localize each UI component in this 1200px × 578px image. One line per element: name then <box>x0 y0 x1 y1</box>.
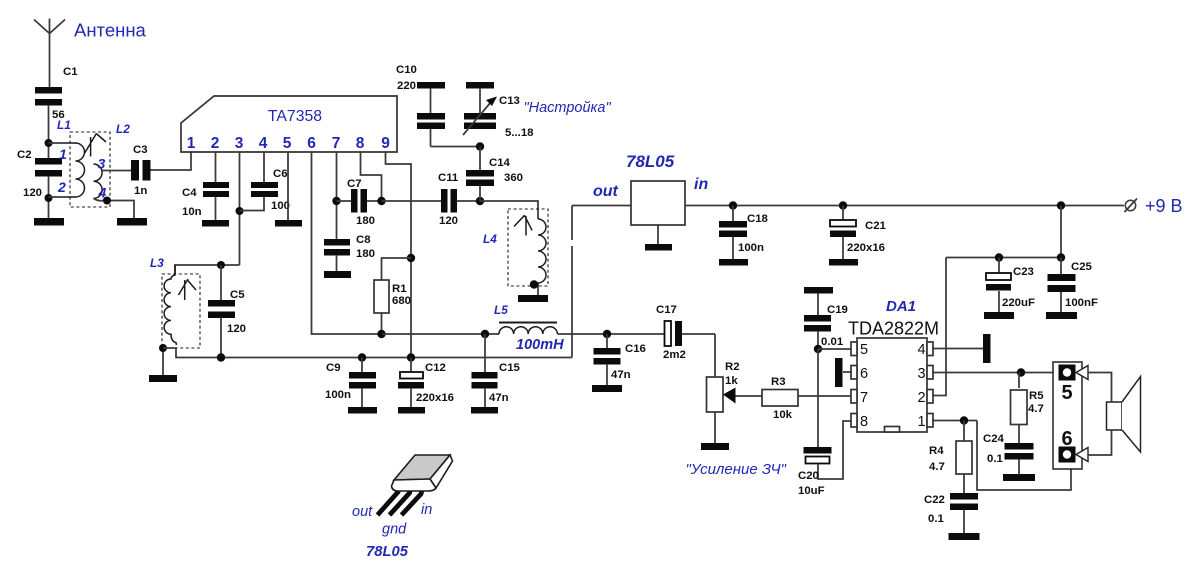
svg-text:4.7: 4.7 <box>1028 403 1044 415</box>
wire C6 bottom to pin3 node <box>240 197 265 211</box>
ground <box>1046 312 1077 319</box>
svg-text:C20: C20 <box>798 470 819 482</box>
resistor R4 <box>929 421 972 475</box>
ground <box>518 295 548 302</box>
node R1 tap <box>407 254 415 262</box>
svg-text:47n: 47n <box>611 369 631 381</box>
wire pin1 <box>932 420 977 422</box>
capacitor C19 <box>804 293 848 349</box>
svg-text:3: 3 <box>235 135 244 152</box>
wire pin2 <box>215 152 217 182</box>
svg-text:R3: R3 <box>771 376 786 388</box>
regulator U2 78L05 <box>572 152 708 251</box>
svg-text:9: 9 <box>381 135 390 152</box>
wire pin1 to speaker return <box>977 421 1071 491</box>
potentiometer R2 <box>707 334 740 412</box>
ground <box>398 407 425 414</box>
svg-text:120: 120 <box>227 323 246 335</box>
node C23 top <box>995 253 1003 261</box>
ground <box>949 533 980 540</box>
capacitor C11 <box>438 172 480 227</box>
ground <box>348 407 377 414</box>
capacitor C8 <box>324 234 375 271</box>
capacitor C4 <box>182 182 229 218</box>
svg-text:C16: C16 <box>625 343 646 355</box>
capacitor C5 <box>208 265 246 357</box>
svg-text:C6: C6 <box>273 168 288 180</box>
svg-text:C5: C5 <box>230 289 245 301</box>
capacitor C18 <box>719 206 768 260</box>
node R4 top <box>960 416 968 424</box>
svg-text:C24: C24 <box>983 433 1005 445</box>
svg-text:10n: 10n <box>182 206 202 218</box>
inductor L3 <box>150 256 200 348</box>
resistor R1 <box>374 280 411 313</box>
svg-text:220: 220 <box>397 80 416 92</box>
ground <box>202 220 229 227</box>
svg-text:120: 120 <box>23 187 42 199</box>
inductor L5 <box>494 303 564 353</box>
wire pin3 down <box>239 152 241 265</box>
inductor L4 <box>483 209 548 286</box>
svg-text:8: 8 <box>356 135 365 152</box>
node C16 top <box>603 330 611 338</box>
svg-text:C7: C7 <box>347 178 362 190</box>
wire C3 to pin1 <box>151 152 192 170</box>
ground bar pin4 <box>983 334 991 363</box>
svg-text:5: 5 <box>1061 382 1072 404</box>
svg-text:220uF: 220uF <box>1002 297 1035 309</box>
speaker BA1 <box>1107 377 1141 453</box>
wire to C11 <box>382 200 442 202</box>
node L4 bottom <box>530 280 538 288</box>
capacitor C1 <box>35 66 78 121</box>
svg-text:C9: C9 <box>326 362 341 374</box>
capacitor C16 <box>594 334 646 385</box>
svg-text:in: in <box>421 502 432 518</box>
svg-text:R1: R1 <box>392 283 407 295</box>
node L2 pin4 <box>103 197 111 205</box>
svg-text:3: 3 <box>917 366 925 382</box>
antenna W1 <box>34 19 147 41</box>
svg-text:10k: 10k <box>773 409 793 421</box>
svg-text:7: 7 <box>860 390 868 406</box>
ground above C19 <box>804 287 833 294</box>
svg-text:2: 2 <box>917 390 925 406</box>
svg-text:1: 1 <box>59 146 67 162</box>
wire pin4 <box>263 152 265 182</box>
wire pin4 <box>932 348 983 350</box>
terminal +9V <box>1125 196 1183 216</box>
svg-text:0.1: 0.1 <box>987 453 1003 465</box>
svg-text:C10: C10 <box>396 64 417 76</box>
node L3 bottom <box>159 344 167 352</box>
wire C4 to ground <box>215 197 217 220</box>
svg-text:TDA2822M: TDA2822M <box>848 319 939 339</box>
svg-text:L3: L3 <box>150 256 164 270</box>
ground <box>701 443 729 450</box>
svg-text:DA1: DA1 <box>886 298 916 315</box>
svg-text:C4: C4 <box>182 187 197 199</box>
svg-text:100nF: 100nF <box>1065 297 1098 309</box>
svg-text:L1: L1 <box>57 118 71 132</box>
capacitor C17 <box>656 304 715 361</box>
ground bar pin6 <box>835 358 852 387</box>
svg-text:C8: C8 <box>356 234 371 246</box>
ground <box>592 385 622 392</box>
svg-text:4: 4 <box>259 135 268 152</box>
svg-text:TA7358: TA7358 <box>268 108 322 125</box>
svg-text:C23: C23 <box>1013 266 1034 278</box>
wire L5 to C16/C17 <box>558 333 664 335</box>
svg-text:R2: R2 <box>725 361 740 373</box>
svg-text:"Настройка": "Настройка" <box>524 100 612 116</box>
ground above C13 <box>466 82 494 89</box>
svg-text:5...18: 5...18 <box>505 127 534 139</box>
wire R2 wiper to R3 <box>736 395 763 397</box>
capacitor C25 <box>1048 258 1098 313</box>
op-amp U1 TA7358 <box>181 96 397 152</box>
node C5 bottom <box>217 353 225 361</box>
svg-text:in: in <box>694 176 708 193</box>
wire pin3 to connector <box>932 372 1053 374</box>
node C9 <box>358 353 366 361</box>
transformer L1 L2 <box>57 118 130 207</box>
svg-text:C17: C17 <box>656 304 677 316</box>
svg-text:5: 5 <box>283 135 292 152</box>
node C10/C13/C14 <box>476 142 484 150</box>
svg-text:78L05: 78L05 <box>366 544 409 560</box>
svg-text:R4: R4 <box>929 445 944 457</box>
svg-text:C1: C1 <box>63 66 78 78</box>
ground <box>149 375 177 382</box>
node C7/C11 <box>377 197 385 205</box>
svg-text:6: 6 <box>307 135 316 152</box>
svg-text:L4: L4 <box>483 232 497 246</box>
wire L2 pin3 to C3 <box>102 170 131 172</box>
svg-text:5: 5 <box>860 342 868 358</box>
wire L3 bottom to bus <box>163 348 572 358</box>
svg-text:1: 1 <box>187 135 196 152</box>
ground <box>34 218 64 226</box>
svg-text:120: 120 <box>439 215 458 227</box>
svg-text:2: 2 <box>57 179 66 195</box>
capacitor C7 <box>337 178 382 227</box>
capacitor C10 <box>396 64 445 147</box>
svg-text:C3: C3 <box>133 144 148 156</box>
svg-text:C14: C14 <box>489 157 511 169</box>
capacitor C24 <box>983 425 1034 475</box>
svg-text:C18: C18 <box>747 213 768 225</box>
node C12 <box>407 353 415 361</box>
ground <box>117 218 147 226</box>
ground above C10 <box>417 82 445 89</box>
svg-text:10uF: 10uF <box>798 485 825 497</box>
wire R1 top <box>382 258 412 280</box>
resistor R3 <box>762 376 798 421</box>
node B (L1 bottom tap) <box>45 194 53 202</box>
svg-text:4.7: 4.7 <box>929 461 945 473</box>
capacitor C20 <box>798 421 852 497</box>
capacitor C2 <box>17 149 62 199</box>
svg-text:100n: 100n <box>325 389 351 401</box>
wire bus pin6 segment <box>382 333 499 335</box>
wire C10 to node <box>431 146 481 148</box>
svg-text:C13: C13 <box>499 95 520 107</box>
svg-text:0.1: 0.1 <box>928 513 944 525</box>
svg-text:C15: C15 <box>499 362 521 374</box>
svg-text:180: 180 <box>356 248 375 260</box>
svg-text:220x16: 220x16 <box>847 242 885 254</box>
svg-text:2m2: 2m2 <box>663 349 686 361</box>
svg-text:gnd: gnd <box>382 522 407 538</box>
svg-text:C25: C25 <box>1071 261 1093 273</box>
ground <box>1003 474 1035 481</box>
wire connector to speaker <box>1088 373 1112 456</box>
svg-text:L5: L5 <box>494 303 508 317</box>
node R5 top <box>1017 368 1025 376</box>
svg-text:220x16: 220x16 <box>416 392 454 404</box>
svg-text:R5: R5 <box>1029 390 1044 402</box>
wire 78L05 in to +9V <box>685 205 1124 207</box>
connector XS1 <box>1053 362 1088 469</box>
svg-text:C22: C22 <box>924 494 945 506</box>
capacitor C13 variable <box>463 88 534 139</box>
wire L1 pin2 <box>49 196 77 198</box>
svg-text:680: 680 <box>392 295 411 307</box>
wire R3 to pin7 <box>798 395 852 397</box>
wire pin7 down <box>336 152 338 240</box>
svg-text:out: out <box>352 504 373 520</box>
svg-text:4: 4 <box>917 342 925 358</box>
svg-text:C21: C21 <box>865 220 887 232</box>
wire node to L4 <box>480 201 538 219</box>
svg-text:C2: C2 <box>17 149 32 161</box>
svg-text:7: 7 <box>332 135 341 152</box>
node C25 top <box>1057 253 1065 261</box>
svg-text:1: 1 <box>917 414 925 430</box>
wire +9V down <box>932 206 1061 396</box>
ground <box>471 407 498 414</box>
wire pin8 jog <box>361 152 382 201</box>
svg-text:1k: 1k <box>725 375 738 387</box>
node R1/bus <box>377 330 385 338</box>
node pin7/C7 <box>332 197 340 205</box>
wire L2 pin4 to ground <box>94 198 135 218</box>
svg-text:78L05: 78L05 <box>626 152 675 171</box>
svg-text:C11: C11 <box>438 172 459 184</box>
capacitor C9 <box>325 358 376 408</box>
wire pin6 down to bus <box>312 152 383 334</box>
svg-text:47n: 47n <box>489 392 509 404</box>
capacitor C12 <box>398 358 454 408</box>
node pin5 <box>814 345 822 353</box>
node C18 <box>729 201 737 209</box>
wire L1 pin1 <box>49 142 77 144</box>
wire pin5 <box>287 152 289 220</box>
wire C1 to C2 <box>48 105 50 158</box>
capacitor C21 <box>830 206 887 260</box>
wire L3 to ground <box>162 348 164 375</box>
wire C19 node down to C20 <box>817 349 819 447</box>
svg-text:360: 360 <box>504 172 523 184</box>
IC DA1 TDA2822M <box>848 298 939 432</box>
svg-text:6: 6 <box>860 366 868 382</box>
ground <box>324 271 351 278</box>
svg-text:100n: 100n <box>738 242 764 254</box>
svg-text:180: 180 <box>356 215 375 227</box>
wire out-line with gap <box>571 206 573 358</box>
svg-text:2: 2 <box>211 135 220 152</box>
svg-text:1n: 1n <box>134 185 147 197</box>
svg-text:3: 3 <box>98 156 106 172</box>
wire pin9 jog down <box>386 152 412 358</box>
node pin3/C6 <box>236 207 244 215</box>
78L05 package drawing <box>352 455 453 560</box>
capacitor C22 <box>924 474 978 533</box>
node C15 top <box>481 330 489 338</box>
svg-text:"Усиление ЗЧ": "Усиление ЗЧ" <box>686 461 787 478</box>
wire C2 to ground <box>48 176 50 218</box>
node C21 <box>839 201 847 209</box>
wire antenna to C1 <box>49 34 51 88</box>
ground <box>984 312 1014 319</box>
svg-text:8: 8 <box>860 414 868 430</box>
node A (L1 top tap) <box>45 139 53 147</box>
capacitor C15 <box>472 334 521 407</box>
capacitor C14 <box>466 147 523 202</box>
svg-text:100mH: 100mH <box>516 337 564 353</box>
node C5 top <box>217 261 225 269</box>
resistor R5 <box>1011 373 1045 425</box>
svg-text:C12: C12 <box>425 362 446 374</box>
ground <box>829 259 858 266</box>
ground <box>719 259 748 266</box>
ground <box>275 220 302 227</box>
svg-text:+9 В: +9 В <box>1145 196 1183 216</box>
wire R1 bottom <box>381 313 383 334</box>
wire pin3 to L3/C5 <box>175 265 240 274</box>
svg-text:Антенна: Антенна <box>74 20 147 41</box>
wire node to pin5 <box>818 348 852 350</box>
node +9V branch <box>1057 201 1065 209</box>
svg-text:0.01: 0.01 <box>821 336 844 348</box>
wire R2 to ground <box>714 412 716 443</box>
svg-text:C19: C19 <box>827 304 848 316</box>
capacitor C3 <box>131 144 151 197</box>
svg-text:L2: L2 <box>116 122 130 136</box>
node C14 bottom <box>476 197 484 205</box>
capacitor C23 <box>986 258 1035 313</box>
wire L4 to ground <box>537 283 539 295</box>
capacitor C6 <box>251 168 290 212</box>
svg-text:out: out <box>593 183 619 200</box>
